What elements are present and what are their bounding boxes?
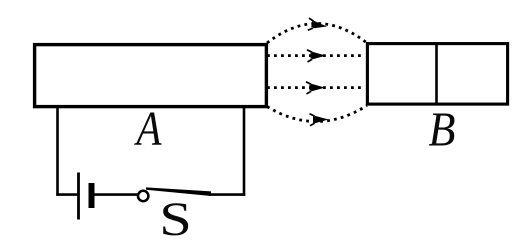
label S (switch): [159, 192, 192, 246]
wire: bottom horizontal left segment to battery: [56, 193, 77, 196]
field line 1 (top curved, dotted): [267, 24, 367, 44]
battery short thick plate (negative): [89, 183, 95, 208]
switch S pivot circle: [138, 191, 148, 201]
arrow on field line 2: [307, 50, 326, 62]
field line 4 (bottom curved, dotted): [267, 106, 367, 122]
bar B divider line: [435, 44, 438, 105]
label A (electromagnet): [134, 101, 162, 155]
svg-text:A: A: [134, 101, 162, 155]
battery long plate (positive): [77, 173, 80, 220]
arrow on field line 4: [310, 114, 329, 126]
iron bar B (outer rectangle): [367, 44, 507, 105]
svg-text:S: S: [159, 192, 192, 246]
wire: horizontal segment battery to switch: [95, 193, 139, 196]
switch S lever (tapered blade): [146, 187, 211, 196]
wire: right vertical stub to coil A: [243, 107, 246, 196]
field line 3 (straight, dotted): [267, 86, 363, 89]
electromagnet coil A (outer rectangle): [35, 45, 267, 107]
arrow on field line 3: [306, 82, 325, 94]
wire: horizontal segment switch to right stub: [209, 193, 245, 196]
field line 2 (straight, dotted): [267, 54, 363, 57]
label B (iron bar): [429, 103, 456, 158]
arrow on field line 1: [307, 18, 327, 33]
wire: left vertical stub from coil A: [56, 107, 59, 196]
svg-text:B: B: [429, 103, 456, 158]
